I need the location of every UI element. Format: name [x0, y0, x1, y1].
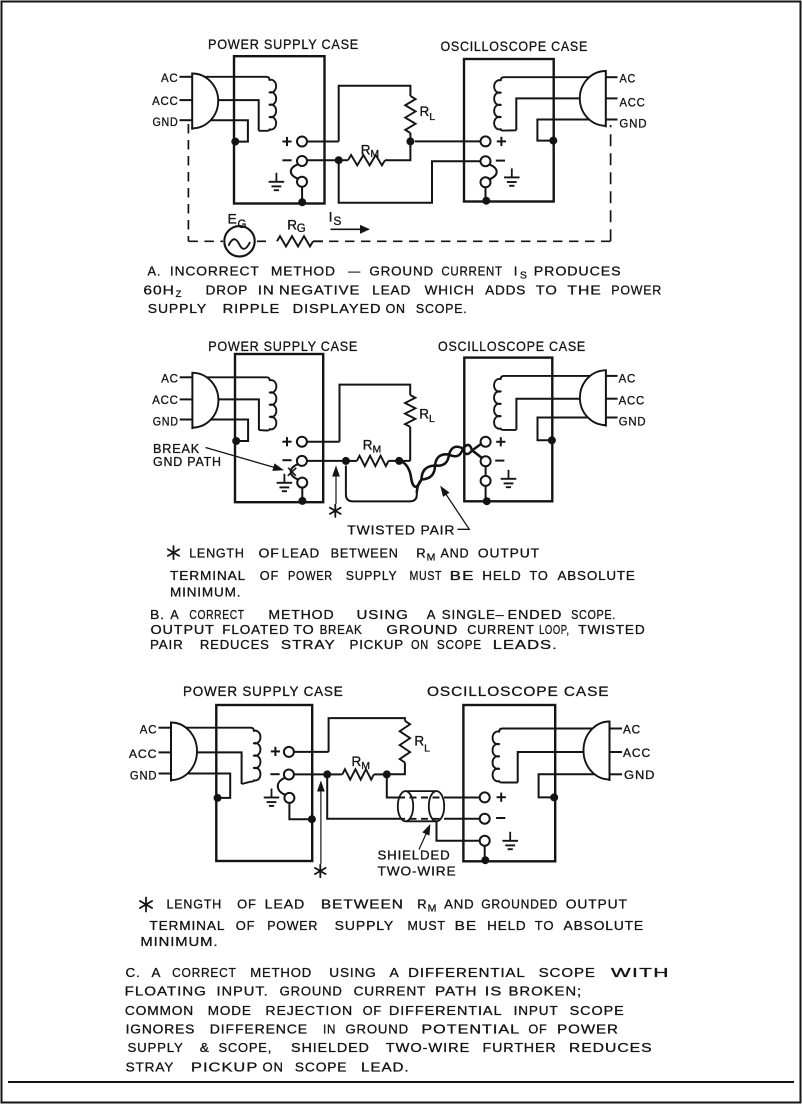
svg-text:GND PATH: GND PATH: [153, 455, 222, 469]
svg-text:IS: IS: [485, 984, 503, 999]
svg-text:PRODUCES: PRODUCES: [534, 264, 622, 279]
svg-text:CORRECT: CORRECT: [172, 965, 237, 980]
svg-text:SCOPE: SCOPE: [437, 637, 482, 652]
svg-text:BE: BE: [450, 568, 475, 583]
svg-text:L: L: [429, 413, 435, 425]
svg-text:DIFFERENTIAL: DIFFERENTIAL: [389, 1003, 503, 1018]
svg-text:TWISTED PAIR: TWISTED PAIR: [347, 523, 455, 538]
svg-text:BREAK: BREAK: [153, 442, 200, 456]
svg-text:—: —: [348, 264, 361, 279]
svg-text:A: A: [152, 965, 162, 980]
svg-text:M: M: [427, 551, 436, 563]
svg-text:SUPPLY: SUPPLY: [148, 301, 207, 316]
svg-text:AC: AC: [623, 725, 641, 737]
svg-text:ACC: ACC: [152, 96, 178, 108]
svg-text:LEADS.: LEADS.: [493, 637, 558, 652]
svg-text:GND: GND: [624, 770, 655, 782]
svg-text:REJECTION: REJECTION: [265, 1003, 353, 1018]
svg-text:AC: AC: [619, 374, 637, 386]
svg-text:LEAD: LEAD: [282, 545, 320, 560]
svg-text:M: M: [361, 760, 370, 772]
svg-text:MINIMUM.: MINIMUM.: [170, 585, 241, 600]
svg-text:TWO-WIRE: TWO-WIRE: [386, 1040, 470, 1055]
svg-text:TERMINAL: TERMINAL: [170, 568, 246, 583]
svg-text:ACC: ACC: [620, 98, 646, 110]
svg-text:OSCILLOSCOPE CASE: OSCILLOSCOPE CASE: [438, 339, 586, 354]
svg-text:E: E: [228, 211, 238, 227]
svg-text:POWER: POWER: [267, 918, 318, 933]
svg-text:AND: AND: [444, 897, 474, 912]
svg-text:OF: OF: [260, 568, 279, 583]
svg-text:S: S: [333, 214, 341, 228]
svg-text:MUST: MUST: [410, 568, 443, 583]
svg-text:M: M: [428, 903, 437, 915]
svg-text:G: G: [238, 219, 247, 231]
svg-text:OUTPUT: OUTPUT: [151, 622, 215, 637]
svg-text:ENDED: ENDED: [508, 607, 563, 622]
svg-text:USING: USING: [329, 965, 376, 980]
svg-text:FLOATING: FLOATING: [125, 984, 207, 999]
svg-text:OF: OF: [259, 545, 280, 560]
svg-text:SINGLE: SINGLE: [442, 607, 496, 622]
svg-text:HELD: HELD: [482, 568, 521, 583]
svg-text:LEAD: LEAD: [372, 283, 411, 298]
svg-text:IN: IN: [323, 1022, 336, 1037]
svg-text:AC: AC: [140, 725, 158, 737]
svg-text:ON: ON: [263, 1060, 284, 1075]
svg-text:FURTHER: FURTHER: [483, 1040, 557, 1055]
svg-text:NEGATIVE: NEGATIVE: [279, 283, 360, 298]
svg-text:BE: BE: [455, 918, 478, 933]
svg-text:TO: TO: [536, 283, 558, 298]
svg-text:OF: OF: [363, 1003, 382, 1018]
svg-text:POWER SUPPLY CASE: POWER SUPPLY CASE: [208, 37, 359, 52]
svg-text:RIPPLE: RIPPLE: [223, 301, 281, 316]
svg-text:SHIELDED: SHIELDED: [378, 848, 451, 863]
svg-text:A: A: [170, 607, 179, 622]
svg-text:A.: A.: [148, 264, 162, 279]
svg-text:GND: GND: [153, 416, 179, 428]
svg-text:MODE: MODE: [208, 1003, 252, 1018]
svg-text:FLOATED: FLOATED: [222, 622, 289, 637]
svg-text:L: L: [429, 111, 435, 123]
svg-text:REDUCES: REDUCES: [200, 637, 270, 652]
svg-text:DISPLAYED: DISPLAYED: [293, 301, 382, 316]
svg-text:INPUT.: INPUT.: [217, 984, 269, 999]
svg-text:GND: GND: [153, 117, 179, 129]
svg-text:MUST: MUST: [408, 918, 446, 933]
svg-text:STRAY: STRAY: [126, 1060, 175, 1075]
svg-text:CURRENT: CURRENT: [354, 984, 427, 999]
svg-text:POWER SUPPLY CASE: POWER SUPPLY CASE: [183, 684, 344, 699]
svg-text:–: –: [496, 607, 505, 622]
svg-text:GND: GND: [619, 118, 647, 130]
svg-text:OSCILLOSCOPE CASE: OSCILLOSCOPE CASE: [441, 39, 589, 54]
svg-text:G: G: [297, 223, 306, 235]
svg-text:TWISTED: TWISTED: [578, 622, 645, 637]
svg-text:OSCILLOSCOPE CASE: OSCILLOSCOPE CASE: [427, 684, 610, 699]
svg-text:SUPPLY: SUPPLY: [335, 918, 394, 933]
svg-text:IN: IN: [258, 283, 275, 298]
svg-text:CURRENT: CURRENT: [441, 264, 502, 279]
svg-text:TO: TO: [535, 918, 555, 933]
svg-text:GROUND: GROUND: [280, 984, 343, 999]
svg-text:DIFFERENTIAL: DIFFERENTIAL: [408, 965, 526, 980]
svg-text:OUTPUT: OUTPUT: [566, 897, 628, 912]
svg-text:BROKEN;: BROKEN;: [509, 984, 583, 999]
svg-text:GROUND: GROUND: [345, 1022, 409, 1037]
svg-text:SCOPE: SCOPE: [570, 1003, 625, 1018]
svg-text:AC: AC: [161, 374, 179, 386]
svg-text:GROUND: GROUND: [386, 622, 458, 637]
svg-text:SUPPLY: SUPPLY: [346, 568, 397, 583]
svg-text:INPUT: INPUT: [514, 1003, 559, 1018]
svg-text:GND: GND: [130, 771, 157, 783]
svg-text:TERMINAL: TERMINAL: [149, 918, 225, 933]
svg-text:R: R: [416, 545, 426, 560]
svg-text:&: &: [200, 1040, 210, 1055]
svg-text:CORRECT: CORRECT: [189, 607, 244, 622]
svg-text:CURRENT: CURRENT: [467, 622, 534, 637]
svg-text:ACC: ACC: [152, 395, 178, 407]
svg-text:METHOD: METHOD: [268, 607, 334, 622]
svg-text:OF: OF: [528, 1022, 547, 1037]
svg-text:OUTPUT: OUTPUT: [478, 545, 540, 560]
svg-text:ADDS: ADDS: [485, 283, 526, 298]
svg-text:PICKUP: PICKUP: [191, 1060, 258, 1075]
svg-text:ACC: ACC: [619, 396, 645, 408]
svg-text:POWER: POWER: [557, 1022, 619, 1037]
svg-text:USING: USING: [357, 607, 409, 622]
svg-text:STRAY: STRAY: [281, 637, 336, 652]
svg-text:OF: OF: [237, 897, 257, 912]
svg-text:ABSOLUTE: ABSOLUTE: [558, 568, 636, 583]
svg-text:PAIR: PAIR: [150, 637, 184, 652]
svg-text:ON: ON: [411, 637, 429, 652]
svg-text:Z: Z: [176, 289, 182, 300]
svg-text:SCOPE,: SCOPE,: [219, 1040, 273, 1055]
svg-text:POWER SUPPLY CASE: POWER SUPPLY CASE: [208, 339, 358, 354]
svg-text:IGNORES: IGNORES: [126, 1022, 196, 1037]
svg-text:SUPPLY: SUPPLY: [128, 1040, 184, 1055]
svg-text:THE: THE: [567, 283, 601, 298]
svg-text:TO: TO: [530, 568, 549, 583]
svg-text:METHOD: METHOD: [250, 965, 312, 980]
svg-text:ACC: ACC: [129, 749, 157, 761]
svg-text:INCORRECT: INCORRECT: [170, 264, 260, 279]
svg-text:PICKUP: PICKUP: [350, 637, 405, 652]
svg-text:L: L: [424, 742, 430, 754]
svg-text:POTENTIAL: POTENTIAL: [421, 1022, 520, 1037]
svg-text:A: A: [390, 965, 400, 980]
svg-text:M: M: [373, 444, 382, 456]
svg-text:AND: AND: [441, 545, 470, 560]
svg-text:I: I: [514, 264, 518, 279]
svg-text:WHICH: WHICH: [425, 283, 475, 298]
svg-text:POWER: POWER: [611, 283, 662, 298]
svg-text:PATH: PATH: [435, 984, 477, 999]
svg-text:SCOPE.: SCOPE.: [416, 301, 468, 316]
svg-text:AC: AC: [161, 73, 179, 85]
svg-text:OF: OF: [236, 918, 256, 933]
svg-text:C.: C.: [126, 965, 141, 980]
svg-text:SCOPE.: SCOPE.: [571, 607, 616, 622]
svg-text:DIFFERENCE: DIFFERENCE: [210, 1022, 308, 1037]
svg-text:A: A: [427, 607, 437, 622]
svg-text:TO: TO: [293, 622, 314, 637]
svg-text:LEAD: LEAD: [265, 897, 306, 912]
svg-text:WITH: WITH: [611, 965, 670, 980]
svg-text:SHIELDED: SHIELDED: [291, 1040, 370, 1055]
svg-text:SCOPE: SCOPE: [295, 1060, 347, 1075]
svg-text:B.: B.: [150, 607, 165, 622]
svg-text:TWO-WIRE: TWO-WIRE: [378, 864, 457, 879]
svg-text:GROUNDED: GROUNDED: [481, 897, 558, 912]
svg-text:M: M: [370, 148, 379, 160]
svg-text:ACC: ACC: [623, 748, 651, 760]
svg-text:GROUND: GROUND: [369, 264, 434, 279]
svg-text:GND: GND: [619, 416, 647, 428]
svg-text:AC: AC: [620, 74, 637, 86]
svg-text:LENGTH: LENGTH: [189, 545, 245, 560]
svg-text:BETWEEN: BETWEEN: [331, 545, 399, 560]
svg-text:SCOPE: SCOPE: [539, 965, 596, 980]
svg-text:LENGTH: LENGTH: [167, 897, 223, 912]
svg-text:POWER: POWER: [288, 568, 333, 583]
svg-text:REDUCES: REDUCES: [569, 1040, 653, 1055]
svg-text:DROP: DROP: [206, 283, 248, 298]
svg-text:R: R: [417, 897, 427, 912]
svg-text:COMMON: COMMON: [125, 1003, 194, 1018]
svg-text:LEAD.: LEAD.: [361, 1060, 410, 1075]
svg-text:METHOD: METHOD: [271, 264, 336, 279]
svg-text:LOOP,: LOOP,: [539, 622, 570, 637]
svg-text:ABSOLUTE: ABSOLUTE: [564, 918, 645, 933]
svg-text:BREAK: BREAK: [320, 622, 363, 637]
svg-text:60H: 60H: [143, 283, 174, 298]
svg-text:MINIMUM.: MINIMUM.: [140, 934, 218, 949]
svg-text:S: S: [520, 270, 527, 282]
svg-text:HELD: HELD: [487, 918, 526, 933]
svg-text:ON: ON: [386, 301, 406, 316]
svg-text:BETWEEN: BETWEEN: [321, 897, 404, 912]
